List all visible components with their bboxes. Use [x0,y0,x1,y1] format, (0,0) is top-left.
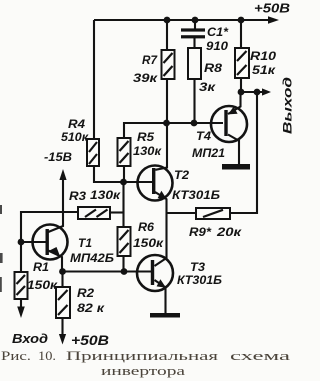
svg-text:инвертора: инвертора [101,364,186,378]
svg-text:R6: R6 [138,222,155,234]
svg-text:Рис.: Рис. [1,349,31,363]
svg-text:КТ301Б: КТ301Б [172,188,221,202]
svg-text:Принципиальная: Принципиальная [66,349,218,363]
svg-text:R9*: R9* [189,227,212,239]
svg-text:R1: R1 [33,262,49,274]
svg-text:+50В: +50В [254,2,290,16]
svg-text:Т3: Т3 [190,260,205,274]
svg-text:Вход: Вход [12,331,48,346]
svg-text:150к: 150к [27,280,58,292]
svg-text:R2: R2 [77,288,95,300]
svg-text:R5: R5 [137,132,155,144]
svg-text:Т2: Т2 [174,168,189,182]
svg-text:51к: 51к [252,65,276,77]
svg-text:R4: R4 [68,119,86,131]
svg-text:R10: R10 [250,51,277,63]
svg-text:910: 910 [206,41,229,53]
svg-text:82 к: 82 к [77,303,105,315]
svg-text:Т1: Т1 [78,236,92,250]
svg-text:130к: 130к [133,146,162,158]
svg-text:R8: R8 [204,63,223,75]
svg-text:510к: 510к [61,132,89,144]
svg-text:20к: 20к [216,227,243,239]
svg-text:Выход: Выход [281,77,294,134]
svg-text:КТ301Б: КТ301Б [177,273,223,287]
svg-text:130к: 130к [90,190,121,202]
svg-text:Т4: Т4 [196,129,211,143]
svg-text:МП42Б: МП42Б [70,251,115,265]
svg-text:150к: 150к [133,238,164,250]
svg-text:МП21: МП21 [192,146,225,160]
svg-text:С1*: С1* [207,27,229,39]
svg-text:10.: 10. [38,349,56,363]
svg-text:схема: схема [230,349,291,363]
svg-text:39к: 39к [133,73,159,85]
svg-text:+50В: +50В [71,332,109,348]
svg-text:3к: 3к [199,82,217,94]
svg-text:-15В: -15В [44,150,72,164]
svg-text:R3: R3 [69,191,87,203]
svg-text:R7: R7 [142,55,158,67]
